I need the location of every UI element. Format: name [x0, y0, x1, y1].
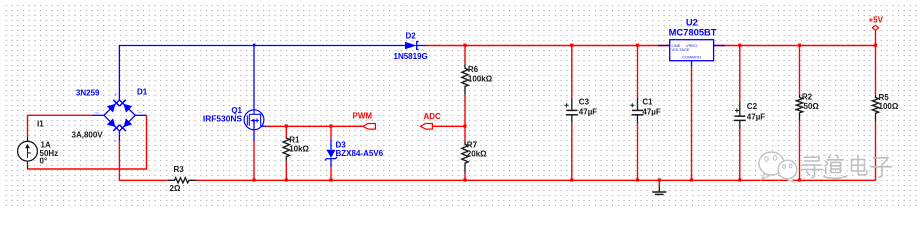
diode top-right: [120, 100, 133, 113]
capacitor C1: [630, 46, 661, 181]
ground: [652, 180, 666, 194]
junction Q1 source-bottom rail: [252, 178, 255, 181]
bridge rectifier D1: [72, 88, 148, 142]
current source I1: [18, 119, 59, 169]
junction ADC-divider: [463, 124, 466, 127]
svg-text:PWM: PWM: [353, 112, 373, 121]
junction R2 bottom rail: [798, 178, 801, 181]
port ADC: [421, 112, 442, 129]
transistor Q1: [203, 46, 266, 142]
bridge bottom stub: [118, 131, 120, 141]
svg-text:+5V: +5V: [869, 15, 884, 24]
diode bottom-right: [120, 118, 133, 131]
svg-text:47µF: 47µF: [747, 112, 766, 121]
wire I1 loop top: [28, 115, 93, 136]
svg-text:MC7805BT: MC7805BT: [669, 27, 717, 38]
svg-text:R1: R1: [289, 135, 300, 144]
bridge right stub: [135, 114, 146, 116]
svg-text:COMMON: COMMON: [682, 55, 701, 60]
diode top-left: [107, 100, 120, 113]
junction D2-R6 top rail: [463, 44, 466, 47]
svg-text:R2: R2: [802, 93, 813, 102]
svg-text:R5: R5: [879, 93, 890, 102]
svg-text:100kΩ: 100kΩ: [468, 74, 493, 83]
wire top rail red from D2 to +5V: [427, 45, 876, 47]
svg-text:C3: C3: [579, 98, 590, 107]
svg-text:2Ω: 2Ω: [170, 184, 181, 193]
junction C3 bottom rail: [570, 178, 573, 181]
bridge pin marks: [95, 93, 142, 142]
svg-text:I1: I1: [37, 119, 44, 128]
svg-text:C1: C1: [642, 98, 653, 107]
capacitor C3: [565, 46, 598, 181]
power port +5V: [869, 15, 884, 30]
junction C2 top rail: [738, 44, 741, 47]
junction R5 +5V rail: [874, 44, 877, 47]
junction C2 bottom rail: [738, 178, 741, 181]
junction R7 bottom rail: [463, 178, 466, 181]
svg-text:50Ω: 50Ω: [804, 102, 820, 111]
wire I1 loop bottom: [28, 115, 147, 169]
svg-text:47µF: 47µF: [579, 108, 598, 117]
wire Q1 gate to PWM: [266, 125, 363, 127]
capacitor C2: [734, 46, 766, 181]
svg-text:10kΩ: 10kΩ: [289, 145, 309, 154]
junction C3 top rail: [570, 44, 573, 47]
wire U2 ground pin: [691, 61, 693, 67]
bridge left stub: [92, 114, 104, 116]
wire ADC to divider: [433, 125, 465, 127]
svg-text:0°: 0°: [40, 156, 48, 165]
resistor R1: [283, 126, 309, 180]
port PWM: [353, 112, 376, 130]
svg-text:47µF: 47µF: [642, 108, 661, 117]
resistor R5: [872, 31, 899, 181]
svg-text:R3: R3: [174, 165, 185, 174]
resistor R6: [462, 46, 493, 142]
svg-text:3A,800V: 3A,800V: [72, 130, 104, 139]
junction D3-gate wire: [329, 124, 332, 127]
junction D3 bottom rail: [329, 178, 332, 181]
svg-text:1N5819G: 1N5819G: [394, 52, 428, 61]
diode D2: [394, 32, 428, 62]
svg-text:3N259: 3N259: [76, 88, 100, 97]
voltage regulator U2: [658, 17, 725, 61]
wire top rail blue from bridge to D2: [119, 46, 405, 101]
wire Q1 source: [253, 142, 255, 181]
svg-text:BZX84-A5V6: BZX84-A5V6: [336, 149, 384, 158]
svg-text:20kΩ: 20kΩ: [467, 150, 487, 159]
svg-text:IRF530NS: IRF530NS: [203, 114, 243, 124]
svg-text:ADC: ADC: [424, 112, 442, 121]
watermark text: [802, 155, 892, 178]
svg-text:R7: R7: [467, 140, 478, 149]
junction R1 bottom rail: [285, 178, 288, 181]
svg-text:R6: R6: [468, 65, 479, 74]
zener diode D3: [325, 126, 384, 180]
svg-text:D2: D2: [406, 32, 417, 41]
junction R1-gate wire: [285, 124, 288, 127]
diode bottom-left: [107, 118, 120, 131]
svg-text:D1: D1: [137, 88, 148, 97]
junction C1 bottom rail: [636, 178, 639, 181]
node Q1 drain junction: [253, 44, 256, 47]
resistor R3: [168, 165, 196, 193]
resistor R7: [462, 140, 487, 180]
junction U2 GND-bottom rail: [690, 178, 693, 181]
svg-text:VOLTAGE: VOLTAGE: [672, 47, 691, 52]
watermark logo: [759, 152, 797, 182]
junction C1 top rail: [636, 44, 639, 47]
resistor R2: [796, 46, 819, 181]
junction ground-bottom rail: [658, 178, 661, 181]
wire bottom rail: [119, 141, 875, 180]
svg-text:C2: C2: [747, 102, 758, 111]
junction R2 top rail: [798, 44, 801, 47]
svg-text:100Ω: 100Ω: [879, 102, 899, 111]
